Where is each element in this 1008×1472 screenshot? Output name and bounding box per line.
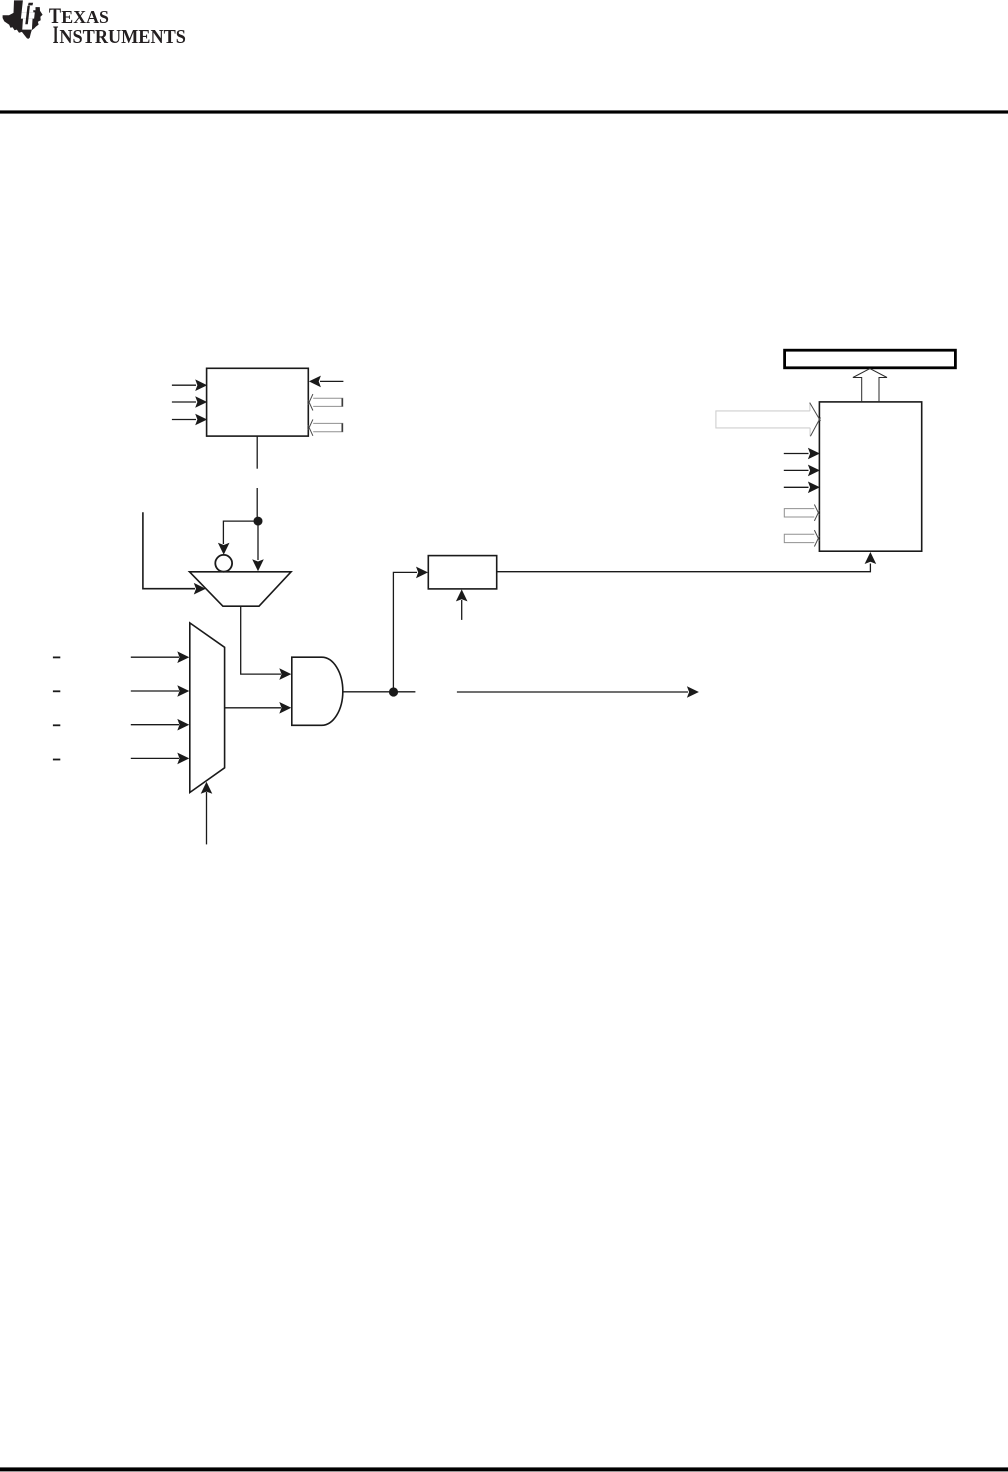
wire PIE input 3 (784, 486, 809, 488)
node N2 junction (389, 687, 398, 696)
wire main into mux M1 (257, 521, 259, 560)
box U2 (counter) (428, 556, 496, 589)
wire input b to U1 (172, 401, 196, 403)
mux M2 (vertical trapezoid) (190, 623, 225, 793)
arrowhead U2 clock (up) (456, 589, 468, 601)
arrowhead M2 select (up) (201, 782, 213, 794)
box U3 (PIE block) (819, 402, 921, 551)
TI logo wordmark: TEXAS INSTRUMENTS (49, 3, 186, 49)
arrowhead polarity select (194, 583, 206, 595)
arrowhead M2 input 1 (177, 651, 189, 663)
top rule (0, 110, 1008, 113)
svg-text:I: I (53, 20, 59, 49)
arrowhead M2 input 2 (177, 685, 189, 697)
wire M2 input 4 (131, 757, 179, 759)
wire G1 output segment 1 (343, 691, 416, 693)
wire M1 output to AND gate (241, 606, 281, 674)
wire U2 clock stub (461, 600, 463, 620)
svg-text:EXAS: EXAS (61, 7, 109, 27)
arrowhead into mux M1 (252, 559, 264, 571)
wire M2 select (206, 792, 208, 844)
bar U4 (CPU bus) (785, 350, 956, 368)
hollow block arrow H1 into U1 (upper, leftward) (308, 394, 343, 410)
svg-text:NSTRUMENTS: NSTRUMENTS (59, 26, 185, 48)
box U1 (input qualification block) (207, 368, 309, 436)
wire M2 input 2 (131, 690, 179, 692)
arrowhead into U2 (416, 567, 428, 579)
arrowhead PIE input 2 (808, 465, 820, 477)
label dash 4 (53, 759, 60, 761)
bottom rule (0, 1467, 1008, 1471)
TI logo bug (Texas state with ti) (3, 0, 43, 39)
arrowhead input b (195, 396, 207, 408)
arrowhead M1 out to G1 (279, 668, 291, 680)
wire polarity select L (143, 512, 195, 588)
label dash 1 (53, 656, 60, 658)
hollow up arrow H6 PIE to CPU bus (853, 369, 887, 402)
wire branch to inverter bubble (223, 521, 258, 544)
wire U1 output bus upper segment (256, 436, 258, 469)
hollow block arrow H4 into PIE (lower, rightward) (784, 530, 819, 546)
wire PIE input 2 (784, 469, 809, 471)
arrowhead into PIE bottom (up) (865, 552, 877, 564)
wire U1 output bus lower segment (256, 488, 258, 521)
wire PIE input 1 (784, 453, 809, 455)
big gray block arrow H5 into PIE left (716, 403, 821, 437)
arrowhead input d (leftward) (309, 376, 321, 388)
arrowhead PIE input 1 (808, 448, 820, 460)
arrowhead M2 input 4 (177, 753, 189, 765)
wire M2 output to AND gate (225, 707, 281, 709)
mux M1 (trapezoid) (190, 572, 292, 606)
wire M2 input 3 (131, 724, 179, 726)
arrowhead input a (195, 379, 207, 391)
arrowhead PIE input 3 (808, 482, 820, 494)
AND gate G1 (292, 657, 343, 725)
arrowhead G1 output end (687, 686, 699, 698)
hollow block arrow H3 into PIE (upper, rightward) (784, 505, 819, 521)
hollow block arrow H2 into U1 (lower, leftward) (308, 419, 343, 435)
inverter bubble B1 (215, 555, 232, 572)
wire feedback up to watchdog box (393, 572, 417, 692)
wire input a to U1 (172, 384, 196, 386)
arrowhead M2 input 3 (177, 719, 189, 731)
solid arrowheads (177, 376, 876, 794)
label dash 3 (53, 724, 60, 726)
wire input c to U1 (172, 419, 196, 421)
node N1 junction (254, 517, 263, 526)
arrowhead into bubble (218, 543, 230, 555)
arrowhead M2 out to G1 (279, 702, 291, 714)
wire M2 input 1 (131, 656, 179, 658)
wire U2 to PIE block (497, 564, 871, 572)
label dash 2 (53, 690, 60, 692)
arrowhead input c (195, 414, 207, 426)
wire G1 output segment 2 (457, 691, 688, 693)
wire input d to U1 right side (320, 380, 343, 382)
